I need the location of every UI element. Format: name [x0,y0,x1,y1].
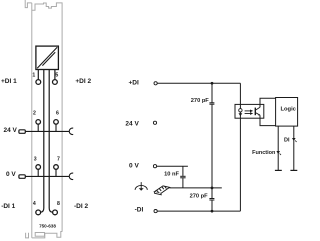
junction dot on -DI rail [211,210,214,213]
DIN rail shield symbol (hatched plate) [154,186,169,195]
24V bus line [25,130,69,132]
24V right power contact arc [69,128,73,134]
terminal circle 2 [36,120,41,125]
emitter arrowhead [258,114,260,116]
light arrows [245,110,254,115]
terminal circle 1 [36,80,41,85]
svg-text:750-638: 750-638 [39,224,56,229]
0V terminal circle [153,165,156,168]
phototransistor [255,107,260,115]
module left edge [31,3,33,238]
Function arrow symbol [276,151,280,154]
0V right power contact arc [69,173,73,179]
terminal circle 3 [36,165,41,170]
svg-text:+DI: +DI [129,79,139,86]
module top-left latch tab [25,0,32,8]
long wire to terminal 8 [49,70,52,213]
svg-text:+DI 1: +DI 1 [1,78,17,85]
0V bus line [25,175,69,177]
24V left power tab [19,130,25,134]
module bottom left outer foot [26,233,29,238]
svg-text:6: 6 [56,111,59,117]
svg-text:DI: DI [284,137,290,143]
stub circle3 [37,169,39,176]
svg-text:24 V: 24 V [4,127,18,134]
svg-text:+DI 2: +DI 2 [75,78,91,85]
wire stub to terminal 1 [37,70,39,80]
earth funnel flukes [139,188,144,190]
svg-text:0 V: 0 V [129,163,139,170]
+DI rail wire [157,82,240,84]
svg-text:4: 4 [33,201,36,207]
24V power bus row [25,124,69,131]
wire stub to terminal 5 [54,70,56,80]
terminal circle 6 [54,120,59,125]
svg-text:7: 7 [57,157,60,163]
diagonal 2 [42,52,55,65]
module bottom latch slot [35,233,44,237]
stub circle6 [55,124,57,131]
svg-text:24 V: 24 V [125,120,139,127]
svg-text:2: 2 [33,111,36,117]
terminal circle 8 [53,210,58,215]
svg-text:Function: Function [252,150,276,156]
emitter wire to logic [260,115,276,125]
opto LED diode [239,113,243,116]
terminal circle 7 [54,165,59,170]
Function signal line [277,126,279,170]
24V terminal circle [153,121,156,124]
svg-text:5: 5 [55,73,58,79]
Logic box [276,98,298,127]
svg-text:0 V: 0 V [6,171,16,178]
function box with diagonal [36,46,59,69]
opto LED lamp [239,109,242,112]
0V power bus row [25,169,69,176]
optocoupler input wire (vertical through box) [239,83,241,211]
junction dot on +DI rail [211,82,214,85]
svg-text:-DI 1: -DI 1 [1,203,15,210]
terminal circle 4 [36,210,41,215]
svg-text:-DI: -DI [135,207,144,214]
module top profile and right edge [32,3,62,232]
capacitor 270 pF (top) [209,83,214,188]
collector wire to logic [260,98,276,107]
optocoupler box U1 [235,104,264,118]
capacitor 270 pF (bottom) [209,188,214,211]
module bottom profile [32,232,62,238]
earth funnel symbol [135,182,147,190]
diagonal 1 [37,47,57,68]
Function end bar [275,169,282,171]
svg-text:270 pF: 270 pF [190,194,209,200]
svg-text:-DI 2: -DI 2 [74,203,88,210]
junction dot on shield bus [211,187,214,190]
svg-text:10 nF: 10 nF [164,171,179,177]
svg-text:8: 8 [57,201,60,207]
DI end bar [290,169,297,171]
terminal circle 5 [53,80,58,85]
-DI rail wire [157,210,240,212]
stub circle2 [37,124,39,131]
svg-text:3: 3 [34,157,37,163]
svg-text:1: 1 [32,73,35,79]
capacitor 10 nF [180,176,185,188]
shield bus line [169,187,221,189]
+DI terminal circle [154,82,157,85]
svg-text:Logic: Logic [280,107,296,113]
0V wire to 10nF [157,165,188,167]
long wire to terminal 4 [41,70,44,213]
0V left power tab [19,175,25,179]
module housing outline [25,0,62,238]
svg-text:270 pF: 270 pF [191,98,210,104]
DI arrow symbol [292,138,296,141]
DI signal line [293,126,295,170]
-DI terminal circle [154,210,157,213]
stub circle7 [55,169,57,176]
